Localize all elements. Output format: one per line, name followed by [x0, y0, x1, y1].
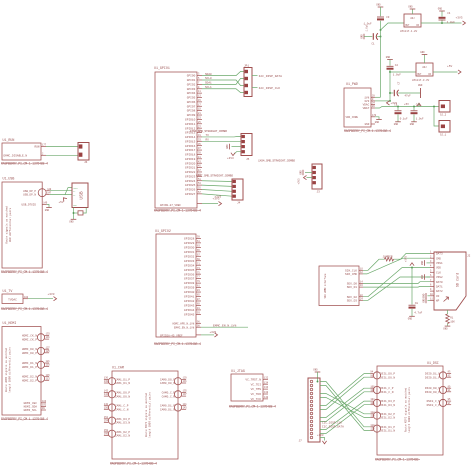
svg-text:GPIO6: GPIO6 [187, 101, 196, 104]
pin pair DSI1_D2_P/DSI1_D2_N with diff circle, pins 112 114 [370, 411, 395, 420]
svg-text:GND: GND [365, 123, 370, 126]
wire J7 pin 8 to DSI lane [320, 377, 370, 409]
op block U1_SD (part of U1) [319, 266, 359, 306]
svg-text:EMMC_EN_N_1V8: EMMC_EN_N_1V8 [213, 324, 237, 327]
svg-text:4.7uF: 4.7uF [414, 311, 422, 314]
svg-text:GPIO29: GPIO29 [184, 242, 195, 245]
svg-text:+3V3: +3V3 [405, 255, 408, 262]
svg-text:1X04_SMD_STRAIGHT_COMBO: 1X04_SMD_STRAIGHT_COMBO [258, 160, 295, 163]
svg-text:U1_USB: U1_USB [3, 177, 15, 181]
wire 3V3 pin to rail [375, 100, 390, 102]
pin GPIO30 pin 63 [184, 244, 201, 249]
op block U1_USB (part of U1) [2, 177, 42, 269]
svg-text:LM1117-1.8V: LM1117-1.8V [400, 30, 418, 33]
svg-text:HDMI_SDA: HDMI_SDA [24, 406, 38, 409]
op block U1_RUN (part of U1) [2, 138, 41, 160]
pin GPIO5 pin 13 [187, 95, 202, 100]
svg-text:VC_TDI: VC_TDI [251, 383, 262, 386]
svg-text:RASPBERRY_PI_CM-1-1376488-4: RASPBERRY_PI_CM-1-1376488-4 [1, 307, 48, 311]
svg-text:140: 140 [264, 396, 269, 399]
svg-text:GPIO15: GPIO15 [185, 140, 196, 143]
op block U1_JTAG (part of U1) [231, 369, 263, 401]
svg-text:GND: GND [69, 221, 74, 224]
connector J7 15-way DSI FPC [299, 378, 321, 443]
svg-text:DAT0: DAT0 [436, 281, 443, 284]
svg-text:138: 138 [264, 391, 269, 394]
svg-text:97: 97 [448, 402, 451, 405]
svg-text:136: 136 [264, 386, 269, 389]
svg-text:120: 120 [370, 428, 375, 431]
wire TX GPIO14 to J5 pin1 [202, 134, 241, 137]
pin GPIO40 pin 83 [184, 289, 201, 294]
svg-text:CAM1_C_N: CAM1_C_N [115, 409, 129, 412]
pin pair HDMI_D0_N/HDMI_D0_P with diff circle, pins 127 125 [22, 346, 50, 355]
svg-text:J7: J7 [299, 440, 303, 443]
svg-text:SDX_D2: SDX_D2 [347, 296, 358, 299]
ground on J5 pin3 [226, 144, 241, 150]
svg-text:RASPBERRY_PI_CM-1-1376488-4: RASPBERRY_PI_CM-1-1376488-4 [229, 405, 276, 409]
wire 1V8 rail to regulator U2 OUT [381, 23, 405, 30]
supply +3V3 below J7 [317, 434, 327, 444]
svg-text:VBAT: VBAT [363, 107, 370, 110]
svg-text:CAM1_C_P: CAM1_C_P [115, 405, 129, 408]
svg-text:GPIO33: GPIO33 [184, 260, 195, 263]
svg-text:Route signals as matched: Route signals as matched [5, 206, 9, 244]
pin GPIO16 pin 35 [185, 143, 202, 148]
pin pair CAM1_D2_P/CAM1_D2_N with diff circle, pins 158 160 [104, 429, 131, 438]
svg-text:152: 152 [104, 416, 109, 419]
svg-text:22: 22 [360, 294, 363, 297]
svg-text:GPIO2: GPIO2 [187, 83, 196, 86]
pin GPIO0 pin 3 [187, 73, 202, 78]
pin 1V8 of U1_PWD [364, 94, 375, 99]
svg-text:U1_GPIO2: U1_GPIO2 [155, 229, 171, 233]
svg-text:DSI1_D1_N: DSI1_D1_N [380, 430, 395, 433]
svg-text:HDMI_D1_N: HDMI_D1_N [22, 362, 37, 365]
pin pair CAM1_D3_P/CAM1_D3_N with diff circle, pins 152 154 [104, 416, 131, 425]
wire 3V3 vertical rail [389, 72, 391, 101]
regulator U2 LM1117-1.8V [400, 14, 421, 33]
svg-text:DSI0_D0_P: DSI0_D0_P [425, 391, 440, 394]
svg-text:127: 127 [46, 346, 51, 349]
svg-text:RASPBERRY_PI_CM-1-1376488-4: RASPBERRY_PI_CM-1-1376488-4 [110, 461, 157, 465]
svg-text:C4: C4 [447, 12, 451, 15]
svg-text:IN: IN [428, 73, 431, 76]
svg-text:GND: GND [420, 51, 425, 54]
pin pair USB_DP_P / USB_DP_N with diff circle, pins 148 147 [23, 188, 52, 197]
svg-text:SDX_CLK: SDX_CLK [345, 269, 357, 272]
capacitor C3 1.0uF on 1V8 rail [364, 16, 390, 30]
pin HDMI_SDA pin 101 [24, 404, 47, 409]
svg-text:CAM0_D0_N: CAM0_D0_N [160, 382, 175, 385]
svg-text:CAM0_D0_P: CAM0_D0_P [160, 378, 175, 381]
svg-text:160: 160 [104, 433, 109, 436]
pin VDD_CORE of U1_PWD [346, 114, 377, 119]
svg-text:USB: USB [79, 191, 85, 200]
svg-text:+3V3: +3V3 [215, 196, 222, 199]
svg-text:141: 141 [183, 403, 188, 406]
supply +5V arrow up on bus [417, 103, 421, 106]
svg-text:GPIO39: GPIO39 [184, 287, 195, 290]
junction C10 on bus [413, 106, 415, 108]
junction 1V8 rail top [380, 29, 382, 31]
svg-text:0.1uF: 0.1uF [400, 117, 408, 120]
pin CD of J2 [430, 293, 440, 298]
supply +3V3 arrow at SD VDD [405, 255, 415, 267]
pin GPIO31 pin 65 [184, 249, 201, 254]
svg-text:DSI1_D0_P: DSI1_D0_P [380, 373, 395, 376]
pin GPIO38 pin 79 [184, 280, 201, 285]
wire VREF to +3V3 arrow [202, 198, 222, 206]
supply +5V arrow right of U3 [447, 65, 461, 74]
svg-text:UART_SMD_STRAIGHT_COMBO: UART_SMD_STRAIGHT_COMBO [196, 174, 233, 177]
svg-text:EMMC_EN_N_1V8: EMMC_EN_N_1V8 [174, 326, 195, 329]
pin VSS1 of J2 [430, 260, 443, 265]
capacitor C7 polarized 47uF [390, 81, 421, 98]
svg-text:GND: GND [418, 84, 423, 87]
wire GPIO27 to J4 pin4 [202, 194, 232, 196]
ground at J2 VSS1 [421, 260, 430, 266]
connector J3 1x4 header [312, 164, 322, 194]
ground below C10 [411, 121, 417, 123]
svg-text:SJ_1: SJ_1 [440, 134, 447, 137]
pin GND of U1_PWD [365, 123, 375, 126]
pin VC_TDO pin 138 [251, 391, 269, 396]
svg-text:143: 143 [183, 406, 188, 409]
wire J7 pin 2 to DSI lane [320, 386, 370, 431]
svg-text:RASPBERRY_PI_CM-1-1376488-4: RASPBERRY_PI_CM-1-1376488-4 [154, 209, 201, 213]
pin pair CAM0_D1_P/CAM0_D1_N with diff circle, pins 141 143 [160, 403, 187, 412]
ground below C8 [409, 315, 415, 317]
svg-text:GND: GND [408, 318, 413, 321]
op block U1_GPIO1 (part of U1) [154, 66, 197, 208]
svg-text:J2: J2 [467, 255, 471, 258]
pin TVDAC pin 180 [8, 296, 29, 302]
pin pair HDMI_D2_N/HDMI_D2_P with diff circle, pins 115 113 [22, 374, 50, 383]
svg-text:ADJ: ADJ [422, 66, 427, 69]
svg-text:HDMI_D1_P: HDMI_D1_P [22, 366, 37, 369]
pin GPIO34 pin 71 [184, 262, 201, 267]
svg-text:OUT: OUT [417, 73, 422, 76]
svg-text:+5V: +5V [447, 65, 452, 68]
solder jumper SJ2 [439, 101, 450, 117]
wire J7 pin 4 to DSI lane [320, 394, 370, 414]
svg-text:DSI1_D1_P: DSI1_D1_P [380, 426, 395, 429]
svg-text:154: 154 [104, 420, 109, 423]
svg-text:RUN: RUN [34, 146, 39, 149]
op block U1_HDMI (part of U1) [2, 321, 41, 415]
svg-text:C1: C1 [372, 43, 376, 46]
wire J7 pin 1 to DSI lane [320, 382, 370, 427]
pin GPIO21 pin 45 [185, 165, 202, 170]
svg-text:USB_OTGID: USB_OTGID [21, 204, 36, 207]
svg-text:89: 89 [197, 303, 200, 306]
svg-text:CMD: CMD [436, 257, 441, 260]
svg-text:GPIO45: GPIO45 [184, 313, 195, 316]
svg-text:+3V3: +3V3 [317, 434, 324, 437]
ground above U2 [408, 6, 415, 15]
op block U1_CAM (part of U1) [112, 366, 178, 459]
svg-text:GND: GND [438, 8, 443, 11]
svg-text:FTDI_SMD_STRAIGHT_COMBO: FTDI_SMD_STRAIGHT_COMBO [190, 130, 227, 133]
pin SDX_D3 pin 24 [347, 297, 364, 302]
junction on VDD row [411, 267, 413, 269]
svg-text:DSI0_C_P: DSI0_C_P [427, 404, 441, 407]
svg-text:LM1117-3.3V: LM1117-3.3V [412, 79, 430, 82]
capacitor C10 1.0uF decoupling [411, 103, 425, 121]
svg-text:GND: GND [375, 121, 380, 124]
svg-text:SDA0: SDA0 [205, 73, 212, 76]
svg-text:GPIO32: GPIO32 [184, 255, 195, 258]
svg-text:C2: C2 [395, 64, 399, 67]
svg-text:GPIO17: GPIO17 [185, 149, 196, 152]
pin pair HDMI_CK_N/HDMI_CK_P with diff circle, pins 133 131 [22, 333, 50, 342]
svg-text:GPIO23: GPIO23 [185, 175, 196, 178]
svg-text:DSI0_D0_N: DSI0_D0_N [425, 387, 440, 390]
svg-text:HDMI_HPD_N_1V8: HDMI_HPD_N_1V8 [173, 322, 195, 325]
pin GPIO33 pin 69 [184, 258, 201, 263]
svg-text:148: 148 [104, 403, 109, 406]
wire SCL1 GPIO3 to JP1 pin 4 [202, 86, 244, 93]
svg-text:GND: GND [376, 4, 381, 7]
wire SCL0 GPIO1 to JP1 pin 3 (crossing) [202, 77, 244, 85]
svg-text:136: 136 [104, 377, 109, 380]
svg-text:GPIO0-27_VREF: GPIO0-27_VREF [160, 204, 181, 207]
svg-text:RASPBERRY_PI_CM-1-1376488-: RASPBERRY_PI_CM-1-1376488- [375, 457, 420, 461]
svg-text:USB_DP_N: USB_DP_N [23, 194, 36, 197]
pin GPIO32 pin 67 [184, 253, 201, 258]
pin GPIO29 pin 61 [184, 240, 201, 245]
resistor JUMPER in CLK path [383, 256, 394, 261]
svg-text:RASPBERRY_PI_CM-1-1376488-4: RASPBERRY_PI_CM-1-1376488-4 [1, 162, 48, 166]
capacitor C4 1.0uF on 3V3 input [439, 11, 456, 24]
pin CLK of J2 [430, 269, 441, 274]
pin GPIO24 pin 51 [185, 178, 202, 183]
svg-text:115: 115 [46, 374, 51, 377]
junction C7 on rail [389, 92, 391, 94]
svg-text:VC_TMS: VC_TMS [251, 388, 262, 391]
pin GPIO18 pin 39 [185, 152, 202, 157]
pin GPIO3 pin 9 [187, 86, 202, 91]
ground on J3 pin2 [299, 170, 312, 176]
svg-text:SDX_D3: SDX_D3 [347, 299, 358, 302]
junction C2 on 3V3 wire [389, 71, 391, 73]
svg-text:U1_HDMI: U1_HDMI [3, 321, 17, 325]
svg-text:GND: GND [410, 123, 415, 126]
svg-text:DAT1: DAT1 [436, 286, 443, 289]
pin VSS2 of J2 [430, 274, 443, 279]
pin SDX_D2 pin 22 [347, 294, 364, 299]
svg-text:CAM1_D0_N: CAM1_D0_N [115, 395, 130, 398]
pin GPIO1 pin 5 [187, 77, 202, 82]
card-detect switch glyph inside J2 [444, 297, 449, 302]
svg-text:U1_DSI: U1_DSI [427, 361, 439, 365]
svg-text:I2C_DISP_DATA: I2C_DISP_DATA [322, 425, 344, 428]
pin EMMC_DISABLE_N with pin number 2 [4, 152, 47, 157]
svg-text:SDX_D1: SDX_D1 [347, 286, 358, 289]
pin pair DSI0_C_N/DSI0_C_P with diff circle, pins 95 97 [427, 398, 452, 407]
svg-text:100: 100 [370, 385, 375, 388]
pin GPIO19 pin 41 [185, 156, 202, 161]
pin USB_OTGID pin 149 to ground [21, 202, 51, 212]
svg-text:length 100R differential pairs: length 100R differential pairs [407, 387, 411, 433]
pin GPIO42 pin 87 [184, 298, 201, 303]
svg-text:102: 102 [370, 389, 375, 392]
pin GPIO11 pin 25 [185, 121, 202, 126]
svg-text:GPIO8: GPIO8 [187, 110, 196, 113]
svg-text:GPIO19: GPIO19 [185, 158, 196, 161]
svg-text:CAM1_D3_N: CAM1_D3_N [115, 422, 130, 425]
svg-text:J5: J5 [246, 158, 250, 161]
pin pair CAM0_C_P/CAM0_C_N with diff circle, pins 135 137 [162, 390, 188, 399]
svg-text:GPIO35: GPIO35 [184, 269, 195, 272]
svg-text:GPIO42: GPIO42 [184, 300, 195, 303]
svg-text:GPIO25: GPIO25 [185, 184, 196, 187]
svg-text:121: 121 [46, 360, 51, 363]
svg-text:GND: GND [226, 144, 229, 149]
svg-text:ADJ: ADJ [410, 17, 415, 20]
op block U1_PWD (part of U1) [344, 82, 371, 127]
note rotated: route MIPI as differential pairs [144, 392, 152, 438]
svg-text:C9: C9 [394, 103, 398, 106]
svg-text:129: 129 [183, 377, 188, 380]
ground at J2 WP [422, 298, 430, 304]
note rotated: route as differential pairs [5, 206, 13, 244]
pin GPIO23 pin 49 [185, 173, 202, 178]
wire VDD_CORE to ground [375, 117, 382, 124]
svg-text:GPIO5: GPIO5 [187, 97, 196, 100]
svg-text:Route MIPI signals as matched: Route MIPI signals as matched [144, 392, 148, 437]
pin pair DSI1_C_P/DSI1_C_N with diff circle, pins 100 102 [370, 385, 393, 394]
wire SDA1 GPIO2 to JP1 pin 2 (crossing) [202, 79, 244, 85]
pin pair CAM0_D0_P/CAM0_D0_N with diff circle, pins 129 131 [160, 377, 187, 386]
supply +3V3 arrow right of U2 [456, 17, 466, 26]
svg-text:GPIO28: GPIO28 [184, 238, 195, 241]
svg-text:VSS2: VSS2 [436, 276, 443, 279]
svg-text:I2C_DISP_DATA: I2C_DISP_DATA [259, 75, 283, 78]
svg-text:GPIO37: GPIO37 [184, 278, 195, 281]
svg-text:131: 131 [46, 336, 51, 339]
pin VDD of J2 [430, 265, 441, 270]
svg-text:GPIO26: GPIO26 [185, 189, 196, 192]
ground above C3 [376, 4, 383, 17]
wire EMMC_EN_N_1V8 net [201, 324, 248, 327]
ground symbol below USB connector [71, 218, 77, 220]
pin GPIO14 pin 31 [185, 134, 202, 139]
ground at J2 VSS2 [421, 274, 430, 280]
svg-text:C10: C10 [416, 103, 421, 106]
svg-text:WP: WP [436, 300, 440, 303]
svg-text:GPIO0: GPIO0 [187, 75, 196, 78]
op block U1_DSI (part of U1) [377, 361, 443, 455]
svg-text:I2C_DISP_CLK: I2C_DISP_CLK [259, 87, 281, 90]
svg-text:101: 101 [42, 404, 47, 407]
svg-text:TVDAC: TVDAC [8, 298, 17, 301]
svg-text:DSI0_D1_P: DSI0_D1_P [425, 376, 440, 379]
svg-text:+3V3: +3V3 [298, 178, 301, 185]
svg-text:87: 87 [197, 298, 200, 301]
svg-text:131: 131 [183, 380, 188, 383]
pin GPIO0-27_VREF [160, 204, 202, 207]
svg-text:Route MIPI signals as matched: Route MIPI signals as matched [404, 387, 408, 432]
wire USB D+ to connector [50, 190, 72, 192]
svg-text:D-: D- [73, 190, 75, 193]
svg-text:SCL0: SCL0 [205, 77, 212, 80]
svg-text:C7: C7 [398, 81, 401, 84]
pin HDMI_SCL pin 99 [24, 407, 46, 412]
pin DAT2 of J2 [430, 288, 443, 293]
svg-text:GPIO21: GPIO21 [185, 167, 196, 170]
svg-text:I2C_DISP_CLK: I2C_DISP_CLK [322, 421, 342, 424]
svg-text:GND: GND [299, 170, 302, 175]
svg-text:VC_TRST_N: VC_TRST_N [245, 378, 261, 381]
svg-text:7: 7 [430, 279, 432, 282]
capacitor C2 1.0uF on 3V3 rail [387, 64, 402, 77]
junction at C4 [441, 22, 443, 24]
capacitor C8 4.7uF at SD VDD [409, 268, 423, 316]
svg-text:135: 135 [183, 390, 188, 393]
svg-text:U1_PWD: U1_PWD [346, 82, 358, 86]
connector JP1 4-pin jumper [244, 64, 252, 96]
wire RX GPIO15 to J5 pin2 [202, 139, 241, 142]
pin GPIO28 pin 59 [184, 236, 201, 241]
svg-text:CAM0_D1_N: CAM0_D1_N [160, 409, 175, 412]
wire SDX_D1 to J2 DAT1 [363, 285, 430, 288]
svg-text:DAT2: DAT2 [436, 290, 443, 293]
connector J6 2-pin header [78, 143, 89, 165]
svg-text:CAM0_C_P: CAM0_C_P [162, 392, 176, 395]
svg-text:90R differential pairs: 90R differential pairs [8, 207, 12, 242]
svg-text:89: 89 [448, 385, 451, 388]
svg-text:GPIO14: GPIO14 [185, 136, 196, 139]
svg-text:GND: GND [421, 274, 424, 279]
pin GPIO6 pin 15 [187, 99, 202, 104]
svg-text:VSS1: VSS1 [436, 262, 443, 265]
svg-text:CAM1_D3_P: CAM1_D3_P [115, 418, 130, 421]
pin pair DSI0_D1_N/DSI0_D1_P with diff circle, pins 83 85 [425, 371, 451, 380]
pin GPIO22 pin 47 [185, 169, 202, 174]
supply +5V arrow to USB VBUS [59, 188, 73, 205]
svg-text:HDMI_CK_N: HDMI_CK_N [22, 335, 37, 338]
wire J7 pin 7 to DSI lane [320, 374, 370, 406]
wire J7 pin 11 to DSI lane [320, 392, 370, 422]
ferrite bead FB1 on shield [74, 208, 87, 215]
svg-text:CAM1_D1_N: CAM1_D1_N [115, 382, 130, 385]
svg-text:CLK: CLK [436, 271, 441, 274]
svg-text:HDMI_D0_P: HDMI_D0_P [22, 352, 37, 355]
wire 1V8 vertical rail [380, 30, 382, 97]
svg-text:GPIO22: GPIO22 [185, 171, 196, 174]
wire GPIO25 to J4 pin2 [202, 185, 232, 186]
pin SDX_D1 pin 16 [347, 284, 364, 289]
pin GPIO10 pin 23 [185, 117, 202, 122]
svg-text:U1_GPIO1: U1_GPIO1 [154, 66, 170, 70]
supply +3V3 on J5 pin4 [227, 152, 241, 160]
svg-text:GND: GND [360, 34, 363, 39]
svg-text:133: 133 [46, 333, 51, 336]
svg-text:OUT: OUT [405, 24, 410, 27]
pin GPIO35 pin 73 [184, 267, 201, 272]
svg-text:GPIO1: GPIO1 [187, 79, 196, 82]
svg-text:J3: J3 [317, 191, 321, 194]
pin DAT1 of J2 [430, 284, 443, 289]
connector X1 USB socket [72, 183, 88, 208]
svg-text:GND: GND [73, 204, 77, 207]
svg-text:GPIO7: GPIO7 [187, 105, 196, 108]
svg-text:+5V: +5V [404, 103, 409, 106]
note rotated: route MIPI as differential pairs [404, 387, 412, 433]
pin GPIO4 pin 11 [187, 90, 202, 95]
